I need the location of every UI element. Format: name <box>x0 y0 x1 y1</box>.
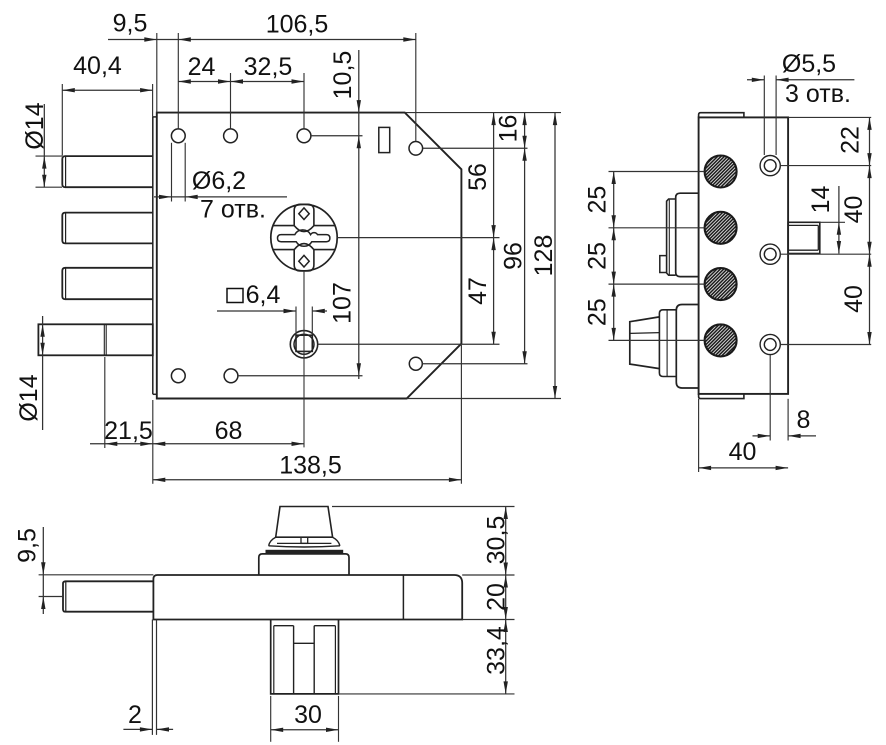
leader from square hole to right dims <box>318 343 500 345</box>
lock body outline with chamfered right corners <box>157 113 462 399</box>
square hole square <box>296 335 312 351</box>
svg-text:106,5: 106,5 <box>266 11 329 39</box>
svg-text:7 отв.: 7 отв. <box>200 196 266 224</box>
ext line screw hole 1 right <box>780 165 871 167</box>
svg-text:3 отв.: 3 отв. <box>785 80 851 108</box>
dimension 21,5 line <box>90 443 153 445</box>
dimension 30,5 line <box>505 507 507 576</box>
ext line hole4 center up <box>415 33 417 141</box>
ext line circle row 2 left <box>609 227 705 229</box>
cam bottom diamond <box>299 255 309 267</box>
dimension dia 5,5 leader <box>747 79 764 81</box>
dimension 2 leader left <box>123 728 152 730</box>
cam boss disc <box>667 199 676 275</box>
dimension dia 6,2 leader line <box>154 196 287 198</box>
faceplate edge line left <box>151 620 153 735</box>
ext line circle row 3 left <box>609 283 705 285</box>
ext line striker left down <box>270 696 272 742</box>
dimension 33,4 line <box>505 620 507 694</box>
cam chord lower left <box>273 249 294 251</box>
dimension 6,4 leader line left <box>217 310 296 312</box>
svg-text:Ø14: Ø14 <box>15 374 43 421</box>
spindle hub outer <box>788 222 820 253</box>
dimension 9,5 line <box>108 39 178 41</box>
deadbolt cap line b <box>105 324 107 355</box>
knob collar curve left <box>269 537 276 546</box>
ext line screw hole 3 right <box>780 344 871 346</box>
dimension 14 line <box>838 186 840 254</box>
svg-text:47: 47 <box>464 277 492 305</box>
square symbol for 6,4 <box>227 289 243 303</box>
ext line side top edge right <box>788 116 871 118</box>
svg-text:2: 2 <box>128 701 142 729</box>
dimension 30 line <box>271 729 339 731</box>
hole bottom row 1 <box>171 369 185 383</box>
dia 5,5 ext line right <box>775 76 777 156</box>
dimension dia 14 bottom line <box>42 316 44 430</box>
ext line circle row 1 left <box>609 171 705 173</box>
knob center notch <box>301 537 308 543</box>
svg-text:25: 25 <box>584 298 612 326</box>
faceplate top tick <box>153 116 157 118</box>
svg-text:138,5: 138,5 <box>279 452 342 480</box>
spindle hub inner bottom line <box>788 249 818 251</box>
striker box inner wall right <box>334 626 336 694</box>
hatched bolt circle 4 <box>705 324 737 356</box>
cam chord upper left <box>273 225 294 227</box>
cam top diamond <box>299 208 309 220</box>
knob ring <box>659 310 676 377</box>
side view body <box>699 117 789 394</box>
knob cone <box>630 317 660 369</box>
ext line striker bottom right <box>339 693 515 695</box>
knob collar middle line <box>277 542 331 544</box>
faceplate bottom tick <box>153 393 157 395</box>
countersunk screw hole 3 inner <box>764 339 776 351</box>
hatched bolt circle 1 <box>705 156 737 188</box>
dimension 2 leader right <box>157 728 174 730</box>
hole top right <box>409 142 423 156</box>
svg-text:24: 24 <box>188 53 216 81</box>
svg-text:10,5: 10,5 <box>329 51 357 100</box>
svg-text:Ø5,5: Ø5,5 <box>782 50 836 78</box>
square hole ext line left <box>295 307 297 335</box>
svg-text:30: 30 <box>294 701 322 729</box>
cam bottom capsule <box>294 250 314 271</box>
ext line circle row 4 left <box>609 339 705 341</box>
svg-text:21,5: 21,5 <box>104 417 153 445</box>
dimension 128 line <box>554 113 556 399</box>
dimension 6,4 leader line right <box>312 310 327 312</box>
ext line deadbolt tip down <box>104 357 106 448</box>
ext line screw hole 3 down <box>769 355 771 441</box>
cam disc circle <box>271 204 337 270</box>
rectangular cutout near top right <box>379 127 390 152</box>
countersunk screw hole 1 outer <box>760 156 780 176</box>
dimension 40,4 line <box>62 89 152 91</box>
deadbolt cap line a <box>103 324 105 355</box>
bolt 1 end cap line <box>65 156 67 187</box>
ext line bar top right <box>462 574 514 576</box>
dimension 56 47 shared line <box>493 113 495 345</box>
svg-text:14: 14 <box>807 186 835 214</box>
hole top row 3 on center axis <box>297 129 311 143</box>
faceplate edge line right <box>156 620 158 735</box>
cam key slot <box>278 230 330 246</box>
svg-text:8: 8 <box>797 406 811 434</box>
dimension 24 line <box>178 81 230 83</box>
countersunk screw hole 3 outer <box>760 334 780 354</box>
svg-text:40: 40 <box>840 196 868 224</box>
svg-text:16: 16 <box>495 115 523 143</box>
ext line body right edge down <box>460 345 462 484</box>
cam chord lower right <box>314 249 335 251</box>
svg-text:32,5: 32,5 <box>244 53 293 81</box>
striker box outer <box>271 620 339 694</box>
svg-text:128: 128 <box>530 235 558 277</box>
dimension 10,5 and 107 shared vertical line <box>358 50 360 379</box>
knob collar lower curve <box>269 546 340 547</box>
svg-text:22: 22 <box>837 126 865 154</box>
ext line side right edge down <box>787 399 789 441</box>
knob ring inner line <box>666 310 668 376</box>
square hole outer circle <box>290 331 317 358</box>
knob head trapezoid <box>276 507 333 538</box>
ext line body top edge right <box>405 112 561 114</box>
hole top row 1 <box>171 129 185 143</box>
hole1 ext line left for dia 6,2 <box>171 143 173 202</box>
svg-text:Ø14: Ø14 <box>21 102 49 149</box>
ext line knob top right <box>332 506 515 508</box>
ext line side left edge down <box>698 399 700 472</box>
countersunk screw hole 2 inner <box>764 248 776 260</box>
bolt 3 (lower round bolt) <box>62 268 153 299</box>
dimension 9,5 bottom view line <box>42 527 44 614</box>
countersunk screw hole 1 inner <box>764 160 776 172</box>
svg-text:25: 25 <box>584 242 612 270</box>
bolt 2 end cap line <box>65 213 67 243</box>
svg-text:33,4: 33,4 <box>483 626 511 675</box>
hole bottom right <box>409 357 422 370</box>
svg-text:9,5: 9,5 <box>14 528 42 563</box>
dimension 40 bottom line <box>699 467 789 469</box>
ext line hole3 center up <box>303 73 305 129</box>
dimension 8 leader right <box>788 435 816 437</box>
side view bottom tab <box>699 394 744 399</box>
hatched bolt circle 3 <box>705 268 737 300</box>
hole bottom row 2 <box>224 369 238 383</box>
cam top capsule <box>294 204 314 225</box>
leader from hole4 to right dims <box>423 147 528 149</box>
striker box slot bottom <box>294 642 315 644</box>
ext line faceplate down <box>152 400 154 484</box>
striker box slot right <box>313 626 315 694</box>
cam boss tab <box>660 256 667 273</box>
dimension 68 line <box>153 443 304 445</box>
svg-text:Ø6,2: Ø6,2 <box>192 167 246 195</box>
svg-text:30,5: 30,5 <box>483 516 511 565</box>
ext line bolt axis left <box>39 596 63 598</box>
svg-text:9,5: 9,5 <box>113 10 148 38</box>
svg-text:40: 40 <box>840 285 868 313</box>
svg-text:56: 56 <box>464 163 492 191</box>
bottom view bar body <box>153 575 462 620</box>
bottom view bar inner line <box>402 575 404 620</box>
dimension 8 leader left <box>753 435 771 437</box>
hole top row 2 <box>224 129 238 143</box>
dimension 22 40 40 chain line <box>869 117 871 344</box>
knob cone surface line <box>630 332 660 335</box>
ext line faceplate left up <box>152 84 154 117</box>
dia 14 top ext line lower <box>36 186 63 188</box>
svg-text:40,4: 40,4 <box>73 52 122 80</box>
ext line bar top left <box>39 574 154 576</box>
ext line body bottom edge right <box>407 398 561 400</box>
striker box inner wall left <box>273 626 275 694</box>
cam boss disc inner line <box>668 200 670 275</box>
ext line body left edge up <box>156 33 158 113</box>
ext line screw hole 2 right <box>780 253 871 255</box>
striker box inner top left <box>274 625 294 627</box>
leader from bottom right hole to right dims <box>422 363 527 365</box>
ext line hub top right <box>820 221 845 223</box>
bolt 1 (top round bolt) <box>62 156 153 187</box>
svg-text:40: 40 <box>729 438 757 466</box>
ext line hole2 center up <box>230 73 232 129</box>
cam boss flange <box>676 193 699 276</box>
ext line bar bottom right <box>462 619 514 621</box>
dimension dia 14 top line <box>43 104 45 187</box>
square hole inner circle <box>294 334 314 354</box>
side view top tab <box>699 113 744 118</box>
dimension 106,5 line <box>178 39 415 41</box>
dimension 32,5 line <box>231 81 305 83</box>
knob base <box>259 554 349 575</box>
knob flange <box>676 305 698 389</box>
countersunk screw hole 2 outer <box>760 244 780 264</box>
bottom view bolt <box>63 581 153 611</box>
striker box inner top right <box>314 625 335 627</box>
svg-text:96: 96 <box>500 242 528 270</box>
cam bottom capsule wave <box>294 244 314 250</box>
svg-text:6,4: 6,4 <box>246 281 281 309</box>
leader from bottom hole row to 107 line <box>238 375 363 377</box>
svg-text:68: 68 <box>215 417 243 445</box>
dimension 16 96 shared line <box>524 113 526 364</box>
dimension 25 chain line <box>613 172 615 341</box>
leader from cam to right dims <box>337 237 499 239</box>
faceplate strip left edge <box>152 117 154 394</box>
bottom view bolt cap line <box>65 582 67 612</box>
svg-text:25: 25 <box>584 186 612 214</box>
ext line striker right down <box>338 696 340 742</box>
striker box slot left <box>293 626 295 694</box>
ext line bolt1 left face up <box>61 84 63 156</box>
ext line hole1 center up <box>177 33 179 129</box>
vertical center line through cam and square hole <box>303 271 305 448</box>
dia 5,5 ext line left <box>763 76 765 156</box>
cam chord upper right <box>314 225 335 227</box>
cam top capsule wave <box>294 226 314 232</box>
svg-text:20: 20 <box>483 583 511 611</box>
bolt 2 (middle round bolt) <box>62 213 153 244</box>
spindle hub inner top line <box>788 224 818 226</box>
leader from hole3 to 10,5 line <box>311 135 363 137</box>
deadbolt (bottom bar) <box>38 324 152 355</box>
knob collar curve right <box>333 537 340 546</box>
dia 14 top ext line upper <box>36 155 63 157</box>
dimension 138,5 line <box>153 479 462 481</box>
square hole ext line right <box>311 307 313 335</box>
svg-text:107: 107 <box>329 282 357 324</box>
dimension 20 line <box>505 575 507 620</box>
spindle hub cap line <box>817 225 819 250</box>
hole1 ext line right for dia 6,2 <box>184 143 186 202</box>
hatched bolt circle 2 <box>705 212 737 244</box>
bolt 3 end cap line <box>65 268 67 299</box>
knob dark band <box>266 550 344 554</box>
